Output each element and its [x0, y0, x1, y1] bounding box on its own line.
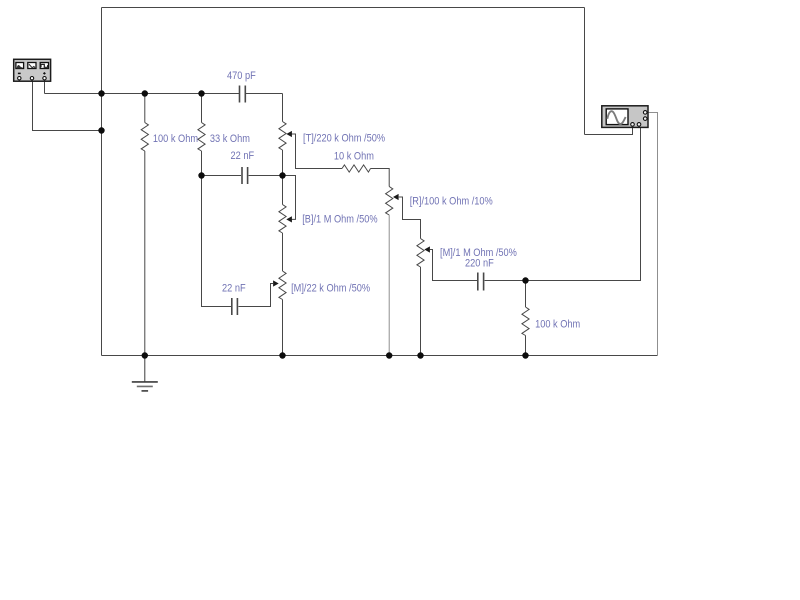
arrow P4 wiper	[393, 194, 399, 200]
wire P1 bottom lead	[282, 150, 284, 176]
wire P4 bottom lead (gray)	[388, 215, 390, 356]
wire P5 wiper to C3	[430, 250, 477, 281]
svg-text:33 k Ohm: 33 k Ohm	[210, 133, 250, 145]
resistor R2 33 k Ohm body	[198, 123, 205, 152]
potentiometer P1 [T] body	[279, 122, 286, 151]
wire node row V+ right of C1	[246, 93, 283, 95]
node dot D	[522, 277, 528, 283]
wire P4 wiper to P5	[398, 197, 421, 239]
node dot generator common	[98, 127, 104, 133]
wire C3 right lead	[485, 280, 526, 282]
svg-text:22 nF: 22 nF	[231, 151, 255, 163]
wire generator + terminal drop	[44, 81, 46, 94]
wire R2 top lead	[201, 94, 203, 123]
potentiometer P2 [B] body	[279, 205, 286, 234]
potentiometer P5 [M] 1M body	[417, 239, 424, 268]
wire bottom ground bus	[102, 355, 658, 357]
wire scope ground riser (gray)	[648, 113, 658, 356]
node dot B right	[279, 172, 285, 178]
wire R1 top lead	[144, 94, 146, 123]
wire left branch down to C4	[202, 176, 232, 307]
arrow P1 wiper	[286, 131, 292, 137]
node dot ground at P5	[417, 352, 423, 358]
capacitor C3 220 nF plates	[478, 273, 484, 291]
wire scope left terminal hook	[585, 128, 633, 135]
node dot top V+ at R1	[142, 90, 148, 96]
wire R2 bottom lead to node B	[201, 151, 203, 176]
wire C2 left lead	[202, 175, 242, 177]
wire left rail x=101	[101, 94, 103, 356]
ground symbol	[132, 356, 158, 391]
node dot top V+ at x101	[98, 90, 104, 96]
svg-text:100 k Ohm: 100 k Ohm	[153, 133, 198, 145]
node dot ground at R1	[142, 352, 148, 358]
wire R1 bottom lead	[144, 151, 146, 356]
resistor R3 10 k Ohm body	[342, 165, 371, 172]
oscilloscope XSC1	[602, 106, 648, 128]
node dot B left	[198, 172, 204, 178]
svg-text:[R]/100 k Ohm /10%: [R]/100 k Ohm /10%	[410, 196, 493, 208]
svg-text:100 k Ohm: 100 k Ohm	[535, 319, 580, 331]
wire node D to scope channel B	[526, 128, 641, 281]
potentiometer P3 [M] 22k body	[279, 271, 286, 300]
svg-text:220 nF: 220 nF	[465, 258, 494, 270]
potentiometer P4 [R] body	[386, 187, 393, 216]
wire P2 to P3	[282, 233, 284, 271]
wire P5 bottom lead	[420, 267, 422, 356]
wire generator common terminal drop	[33, 81, 102, 131]
capacitor C4 22 nF plates	[232, 298, 238, 315]
junction node dots	[98, 90, 528, 358]
wire top-left drop	[101, 8, 103, 94]
arrow P2 wiper	[286, 216, 292, 222]
svg-text:470 pF: 470 pF	[227, 70, 256, 82]
svg-text:[M]/22 k Ohm /50%: [M]/22 k Ohm /50%	[291, 283, 370, 295]
wire P1 wiper to R3	[291, 134, 342, 169]
wire R4 top lead	[525, 281, 527, 308]
svg-text:[B]/1 M Ohm /50%: [B]/1 M Ohm /50%	[302, 214, 377, 226]
svg-text:[T]/220 k Ohm /50%: [T]/220 k Ohm /50%	[303, 133, 385, 145]
wire top-right drop	[584, 8, 586, 135]
wire top bus	[102, 7, 585, 9]
node dot top V+ at R2	[198, 90, 204, 96]
wire node row V+	[45, 93, 240, 95]
wire R3 right lead	[371, 169, 390, 187]
wire P2 wiper loop	[283, 176, 296, 220]
function generator XFG1	[14, 59, 51, 81]
arrow P5 wiper	[424, 246, 430, 252]
node dot ground at P4	[386, 352, 392, 358]
wire P2 top lead	[282, 176, 284, 205]
capacitor C1 470 pF plates	[240, 86, 246, 103]
resistor R4 100 k Ohm body	[522, 307, 529, 336]
svg-text:22 nF: 22 nF	[222, 283, 246, 295]
wire C2 right lead	[249, 175, 283, 177]
wire P3 wiper to C4	[239, 284, 274, 307]
arrow P3 wiper	[273, 280, 279, 286]
wire R4 bottom lead	[525, 336, 527, 356]
capacitor C2 22 nF plates	[242, 167, 248, 184]
wire P1 top lead	[282, 94, 284, 122]
node dot ground at R4	[522, 352, 528, 358]
wire P3 bottom lead	[282, 300, 284, 356]
node dot ground at P3	[279, 352, 285, 358]
resistor R1 100 k Ohm body	[141, 123, 148, 152]
svg-text:10 k Ohm: 10 k Ohm	[334, 151, 374, 163]
